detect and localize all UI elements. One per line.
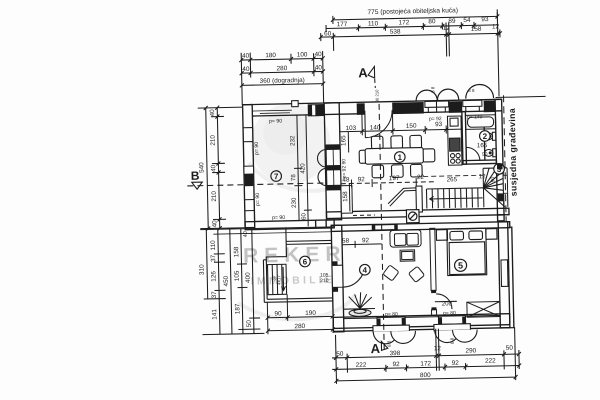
svg-text:37: 37 <box>210 254 217 262</box>
dining table <box>359 135 435 178</box>
svg-text:p= 90: p= 90 <box>269 118 282 124</box>
left chain 540 labels <box>197 109 218 228</box>
svg-text:78: 78 <box>290 174 297 182</box>
top wall black piers <box>308 100 496 116</box>
section line A dashed <box>379 104 384 352</box>
svg-text:1: 1 <box>397 153 402 162</box>
svg-text:8 8: 8 8 <box>450 337 455 344</box>
svg-text:A: A <box>358 65 368 80</box>
svg-text:5: 5 <box>458 261 463 271</box>
plant lamp symbol <box>343 292 375 317</box>
svg-text:90: 90 <box>482 152 488 158</box>
sofa <box>390 230 421 247</box>
svg-text:p= 92: p= 92 <box>429 116 442 122</box>
svg-text:92: 92 <box>452 360 460 367</box>
left wall lower building <box>331 225 344 332</box>
stairs winder fan <box>483 168 508 207</box>
svg-text:110: 110 <box>210 240 217 251</box>
svg-text:8 8: 8 8 <box>430 86 435 93</box>
hall dashed line <box>353 214 375 216</box>
svg-text:310: 310 <box>198 264 205 275</box>
awning arc window 3 <box>465 84 493 98</box>
dimension row3 line <box>321 33 500 37</box>
svg-text:p= 90: p= 90 <box>272 215 285 221</box>
right wall window piers <box>497 163 503 201</box>
svg-text:360 (dogradnja): 360 (dogradnja) <box>260 77 305 85</box>
hall wall chunk <box>341 185 353 213</box>
dimension row2 line <box>326 25 497 29</box>
outer facade line <box>331 227 514 331</box>
svg-text:400: 400 <box>245 272 252 283</box>
room4 dim 58/92 <box>342 240 382 248</box>
svg-text:222: 222 <box>356 362 367 369</box>
svg-text:290: 290 <box>465 347 476 354</box>
door room6 to room4 <box>332 265 365 288</box>
main left wall <box>324 103 341 220</box>
bath inner partition <box>483 127 486 160</box>
terrace door opening 1 <box>373 317 416 344</box>
svg-text:100: 100 <box>297 51 308 58</box>
room7 interior dim chain 232/78/230 <box>293 115 312 227</box>
room divider wall 4/5 <box>430 228 437 315</box>
left top block labels <box>242 51 323 85</box>
top chain ticks <box>318 9 503 100</box>
svg-text:40: 40 <box>211 220 218 228</box>
svg-text:90: 90 <box>490 176 496 182</box>
chimney on room7 top wall <box>292 101 299 107</box>
room6 dims 90/190/280 <box>265 293 335 334</box>
toilet <box>484 132 496 140</box>
svg-text:265: 265 <box>447 176 458 183</box>
dimension labels row2 <box>337 16 489 28</box>
svg-text:126: 126 <box>210 271 217 282</box>
svg-text:40: 40 <box>315 64 323 71</box>
svg-text:540: 540 <box>198 162 205 173</box>
right wall niche <box>501 260 508 287</box>
awning arc window 2 <box>437 89 458 100</box>
svg-text:398: 398 <box>389 350 400 357</box>
bottom chain labels row1 <box>336 344 513 359</box>
svg-text:210: 210 <box>320 278 329 284</box>
right wall <box>495 99 504 215</box>
svg-text:12: 12 <box>443 25 451 32</box>
svg-text:222: 222 <box>485 357 496 364</box>
svg-text:4x17: 4x17 <box>276 275 281 285</box>
bath bottom wall <box>463 160 497 164</box>
svg-text:150: 150 <box>406 123 417 130</box>
window gap lower top wall <box>372 225 397 231</box>
svg-text:165: 165 <box>477 142 488 149</box>
watermark swirl lower <box>238 294 356 320</box>
window sill box kitchen <box>425 101 449 113</box>
svg-text:40: 40 <box>242 53 250 60</box>
bidet <box>484 149 496 157</box>
room circle 1 <box>394 152 405 163</box>
watermark logo circle <box>248 103 346 193</box>
dimension chain 775 row line <box>333 16 497 19</box>
divider jambs <box>431 290 436 310</box>
window mark room7 top wall <box>260 112 290 115</box>
bath door arc <box>466 147 480 161</box>
room7 top wall sill line <box>252 109 291 112</box>
svg-text:37: 37 <box>211 291 218 299</box>
svg-text:12: 12 <box>479 173 487 180</box>
svg-text:54: 54 <box>463 17 471 24</box>
svg-text:90 210: 90 210 <box>374 89 379 103</box>
left top block (360 dogradnja) lines <box>239 51 325 105</box>
svg-text:420: 420 <box>299 163 306 174</box>
coffee table <box>400 250 415 261</box>
svg-text:105: 105 <box>234 270 241 281</box>
door arc room5 <box>435 294 457 310</box>
svg-text:58: 58 <box>342 238 350 245</box>
room7 left wall <box>243 105 255 228</box>
svg-text:8 8: 8 8 <box>468 88 475 93</box>
terrace door opening 2 <box>434 315 478 342</box>
svg-text:93: 93 <box>481 16 489 23</box>
svg-text:158: 158 <box>233 246 240 257</box>
top wall lower building <box>331 222 510 232</box>
svg-text:40: 40 <box>210 164 217 172</box>
room circle 7 <box>271 171 282 182</box>
inner edge bottom wall <box>344 315 500 318</box>
svg-text:2: 2 <box>483 132 488 141</box>
bed <box>436 228 497 276</box>
bottom chain labels row2 <box>356 357 497 368</box>
dimension labels row3 <box>324 23 500 37</box>
svg-text:280: 280 <box>294 323 305 330</box>
room circle 6 <box>300 256 311 267</box>
lower-left chains <box>200 227 336 335</box>
svg-text:141: 141 <box>211 309 218 320</box>
svg-text:80: 80 <box>428 18 436 25</box>
svg-text:800: 800 <box>420 372 431 379</box>
svg-text:197: 197 <box>389 175 400 182</box>
right wall terrace connection <box>498 215 505 221</box>
svg-text:775 (postojeća obiteljska kuća: 775 (postojeća obiteljska kuća) <box>367 7 458 16</box>
awning arc window 1 <box>416 90 437 101</box>
top wall inner line <box>252 111 501 116</box>
basement stair railing <box>388 188 417 206</box>
svg-text:538: 538 <box>390 28 401 35</box>
lower-left chain labels <box>198 239 253 328</box>
section line B-B dashed <box>187 183 339 186</box>
room7 left wall corner blocks <box>243 128 254 211</box>
svg-text:A: A <box>370 341 380 356</box>
jamb blocks left wall <box>326 144 341 190</box>
svg-text:60: 60 <box>300 212 307 220</box>
boundary extension line <box>496 96 546 97</box>
armchair right <box>408 266 424 282</box>
svg-text:165: 165 <box>340 135 347 146</box>
room circle 2 <box>479 131 490 142</box>
svg-text:40: 40 <box>243 231 249 237</box>
window sill box bath <box>463 100 482 112</box>
stairs dim labels <box>447 173 497 184</box>
svg-text:p= 90: p= 90 <box>254 142 260 155</box>
svg-text:158: 158 <box>471 26 482 33</box>
room6 stairs <box>268 264 287 294</box>
room7 left wall pier <box>245 174 254 186</box>
bathtub <box>465 115 495 130</box>
svg-text:p= 90: p= 90 <box>255 193 261 206</box>
svg-text:172: 172 <box>420 360 431 367</box>
kitchen-bath divider wall <box>462 112 467 165</box>
room circle 5 <box>454 259 466 271</box>
svg-text:4: 4 <box>363 266 368 275</box>
svg-text:92: 92 <box>362 237 370 244</box>
svg-text:450: 450 <box>223 275 230 286</box>
svg-text:90: 90 <box>274 310 282 317</box>
svg-text:230: 230 <box>291 197 298 208</box>
svg-text:280: 280 <box>277 65 288 72</box>
room circle 3 <box>494 163 505 174</box>
kitchen counter <box>447 116 462 165</box>
property boundary dashed <box>504 95 507 221</box>
svg-text:22: 22 <box>417 174 425 181</box>
armchair left <box>383 265 399 281</box>
svg-text:103: 103 <box>345 125 356 132</box>
svg-text:110: 110 <box>368 20 379 27</box>
svg-text:7: 7 <box>274 172 279 181</box>
svg-text:60: 60 <box>324 30 332 37</box>
bottom wall upper house <box>326 208 509 218</box>
left chain 540 <box>198 105 246 231</box>
svg-text:190: 190 <box>305 310 316 317</box>
svg-text:210: 210 <box>210 135 217 146</box>
bottom chain slanted ticks <box>334 352 522 383</box>
svg-text:187: 187 <box>234 303 241 314</box>
top wall outer line <box>243 99 502 104</box>
room1 dim chain 103/140/150/93 <box>339 112 462 153</box>
svg-text:12: 12 <box>492 23 500 30</box>
svg-text:40: 40 <box>315 51 323 58</box>
svg-text:92: 92 <box>358 176 366 183</box>
wardrobe with X <box>467 302 500 318</box>
svg-text:50: 50 <box>336 351 344 358</box>
svg-text:40: 40 <box>242 66 250 73</box>
right wall lower building <box>498 222 510 328</box>
svg-text:172: 172 <box>399 19 410 26</box>
doors in main left wall <box>317 149 341 186</box>
p=90 labels room7 <box>253 118 285 221</box>
stairs window sill <box>503 175 507 193</box>
room circle 4 <box>359 264 370 275</box>
svg-text:40: 40 <box>209 109 216 117</box>
svg-text:50: 50 <box>246 320 253 328</box>
svg-text:200: 200 <box>442 301 453 307</box>
svg-text:210: 210 <box>211 191 218 202</box>
svg-text:p= 92 90: p= 92 90 <box>341 159 347 179</box>
svg-text:158: 158 <box>342 191 349 202</box>
room7 left wall window <box>244 166 254 174</box>
section marker A top <box>358 65 379 103</box>
entry door top wall <box>365 110 393 138</box>
svg-text:susjedna građevina: susjedna građevina <box>507 108 519 197</box>
room7 bottom wall <box>245 220 334 230</box>
svg-text:232: 232 <box>289 135 296 146</box>
section marker B left <box>191 169 203 190</box>
svg-text:12: 12 <box>434 345 442 352</box>
svg-text:8 8: 8 8 <box>387 340 392 347</box>
svg-text:92: 92 <box>393 361 401 368</box>
stairs treads <box>426 188 483 209</box>
svg-text:6: 6 <box>303 257 308 266</box>
section marker A bottom <box>370 341 388 356</box>
chimney symbol <box>406 210 419 223</box>
wall stub right of railing <box>416 186 423 212</box>
svg-text:89: 89 <box>448 18 456 25</box>
svg-text:180: 180 <box>265 52 276 59</box>
stairs arrow <box>430 195 483 201</box>
svg-text:50: 50 <box>506 345 514 352</box>
svg-text:177: 177 <box>337 21 348 28</box>
hall dim chain 48/92/197/22 <box>341 178 436 212</box>
window sill left of main corner <box>311 105 315 116</box>
bottom wall lower building <box>333 314 510 329</box>
svg-text:p= 140: p= 140 <box>467 114 483 120</box>
